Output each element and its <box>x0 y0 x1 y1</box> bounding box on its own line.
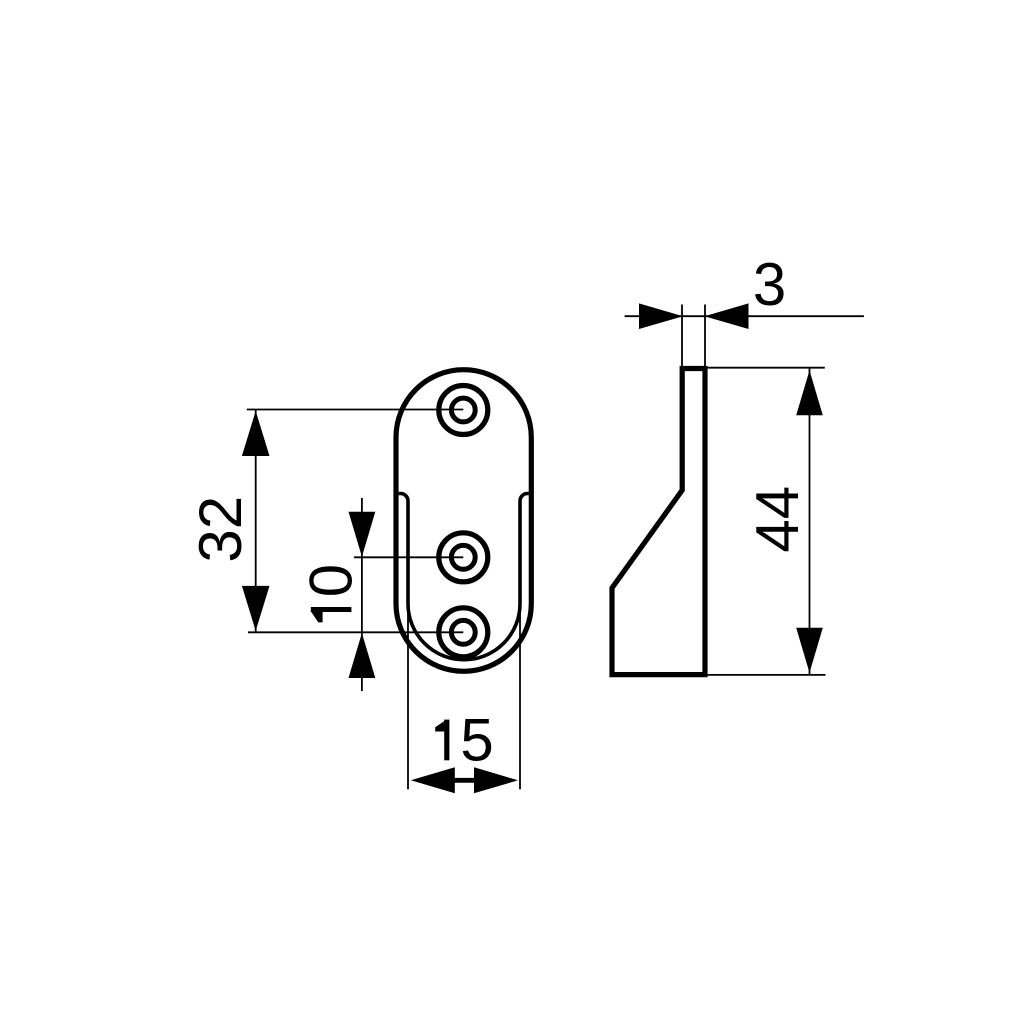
svg-text:44: 44 <box>744 486 811 553</box>
svg-text:5: 5 <box>460 706 493 773</box>
svg-text:32: 32 <box>187 496 254 563</box>
svg-text:3: 3 <box>753 251 786 318</box>
svg-text:0: 0 <box>297 564 364 597</box>
